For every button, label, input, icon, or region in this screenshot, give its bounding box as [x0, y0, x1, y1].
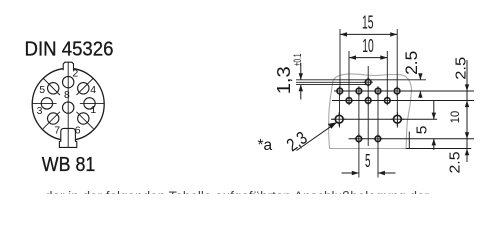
pin 1 circle [84, 98, 95, 109]
leader 2,3 to left hole [297, 123, 337, 151]
svg-text:1,3: 1,3 [274, 66, 294, 94]
connector shell circle [32, 68, 104, 140]
svg-text:2: 2 [72, 68, 78, 80]
pin 3 circle [41, 98, 52, 109]
solder pin row2 a [335, 86, 344, 95]
svg-text:5: 5 [365, 151, 371, 171]
blob corner edge vertical (black) [408, 132, 410, 149]
extension line x=349 (10 dim left) [348, 51, 350, 97]
top keyway tab [63, 62, 73, 70]
svg-text:2.5: 2.5 [447, 152, 463, 174]
inner dimension 2.5 stem (x=420.4) [419, 74, 421, 80]
vertical centerline x=358.9 [358, 87, 360, 178]
svg-text:5: 5 [414, 126, 430, 135]
solder pin top (368.2,82.2) [364, 78, 373, 87]
vertical centerline x=397.3 holes [396, 87, 398, 128]
bottom keyway tab [59, 128, 76, 147]
horizontal spoke pin 3 [33, 102, 57, 104]
hole centerline y=119.2 [331, 118, 437, 120]
extension line x=387.3 (10 dim right) [386, 51, 388, 97]
svg-text:2.5: 2.5 [402, 51, 421, 75]
svg-text:10: 10 [362, 36, 374, 56]
svg-text:WB 81: WB 81 [42, 154, 96, 176]
outer chain stem x=467 [466, 60, 468, 162]
diagonal spoke pin 4 [77, 78, 94, 95]
solder pin row3 a [344, 96, 353, 105]
row line y=91 [334, 90, 474, 92]
bottom edge extension line y=148.5 [406, 148, 471, 150]
solder pin row2 d [392, 86, 401, 95]
dimension 1,3 +-0.1 stem and arrows [300, 63, 302, 80]
solder pin row3 c [383, 96, 392, 105]
top pin tangent line lower [296, 84, 368, 86]
pin 5 circle [48, 83, 59, 94]
diagonal spoke pin 5 [43, 78, 60, 95]
solder pin row2 c [373, 86, 382, 95]
cut-off body text at bottom edge [45, 190, 485, 204]
extension line x=340 (15 dim left) [339, 29, 341, 88]
svg-text:2,3: 2,3 [283, 127, 311, 155]
svg-text:10: 10 [448, 111, 462, 124]
svg-text:4: 4 [90, 84, 96, 96]
diagonal spoke pin 6 [77, 112, 94, 129]
pin 8 circle (center) [62, 102, 73, 113]
bottom row line y=138.8 [349, 138, 475, 140]
svg-text:DIN 45326: DIN 45326 [25, 39, 114, 61]
pin 6 circle [78, 113, 89, 124]
svg-text:1: 1 [90, 104, 96, 116]
footprint body outline (gray freeform) [329, 74, 412, 149]
svg-text:±0.1: ±0.1 [292, 54, 304, 67]
solder pin row2 b [354, 86, 363, 95]
dimension 15 line [340, 33, 397, 35]
solder pin bottom a [354, 134, 363, 143]
vertical centerline through tab, pin2, pin8 [67, 62, 69, 147]
svg-text:15: 15 [362, 13, 374, 33]
top pin tangent line upper [296, 79, 426, 81]
svg-text:5: 5 [39, 84, 45, 96]
svg-text:6: 6 [75, 125, 81, 137]
bottom dimension 5 [342, 172, 359, 174]
extension line x=397.2 (15 dim right) [396, 29, 398, 88]
svg-text:3: 3 [37, 105, 43, 117]
svg-text:*a: *a [258, 137, 273, 154]
svg-text:2.5: 2.5 [453, 57, 469, 80]
horizontal spoke pin 1 [80, 102, 104, 104]
solder pin bottom b [373, 134, 382, 143]
mounting hole right [390, 112, 404, 126]
svg-text:7: 7 [54, 125, 60, 137]
pin 4 circle [78, 83, 89, 94]
mounting hole left (2.3 dia) [332, 112, 346, 126]
solder pin row3 b [364, 96, 373, 105]
pin 2 circle [62, 76, 73, 87]
top pin center line [296, 81, 369, 83]
pin 7 circle [48, 113, 59, 124]
svg-text:8: 8 [64, 89, 70, 101]
dimension 10 line [349, 57, 387, 59]
vertical centerline x=378 [377, 87, 379, 178]
row line y=100.5 [332, 100, 474, 102]
diagonal spoke pin 7 [43, 112, 60, 129]
vertical centerline x=368.2 [367, 66, 369, 146]
vertical centerline x=339.5 [339, 87, 341, 128]
inner dimension 5 (holes to bottom row) stem x=433.8 [433, 101, 435, 120]
